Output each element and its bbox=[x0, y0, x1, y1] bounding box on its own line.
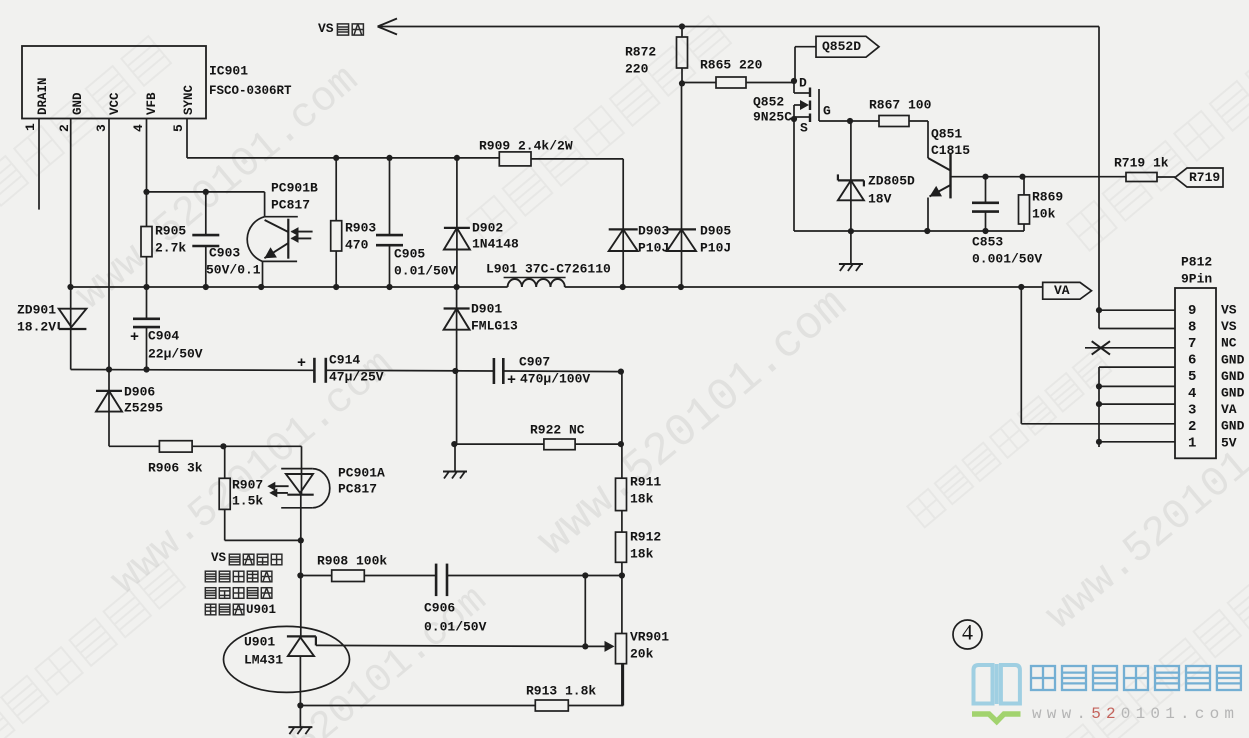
resistor R912 bbox=[616, 532, 627, 562]
svg-text:9Pin: 9Pin bbox=[1181, 271, 1212, 286]
resistor R719 bbox=[1126, 173, 1157, 182]
capacitor C914 bbox=[313, 358, 316, 383]
node C903 top bbox=[203, 189, 209, 195]
svg-text:9N25C: 9N25C bbox=[753, 109, 792, 124]
wire R912 to VR901 bbox=[621, 576, 623, 634]
wire pin5 GND bbox=[1096, 383, 1102, 389]
node R906 R907 bbox=[220, 443, 226, 449]
svg-text:SYNC: SYNC bbox=[182, 84, 196, 115]
svg-text:C1815: C1815 bbox=[931, 143, 970, 158]
svg-text:ZD901: ZD901 bbox=[17, 302, 56, 317]
svg-text:GND: GND bbox=[1221, 386, 1245, 401]
svg-text:Q851: Q851 bbox=[931, 126, 962, 141]
svg-text:8: 8 bbox=[1188, 319, 1196, 335]
svg-text:1: 1 bbox=[1188, 436, 1196, 452]
node LED cathode R907 bbox=[298, 537, 304, 543]
svg-text:R719 1k: R719 1k bbox=[1114, 155, 1169, 170]
wire main VA bus with inductor L901 bbox=[71, 279, 1043, 287]
node bus PC901B emitter bbox=[258, 284, 264, 290]
svg-text:.: . bbox=[1076, 705, 1086, 723]
wire VFB feedback bbox=[146, 119, 148, 227]
svg-text:1: 1 bbox=[23, 123, 38, 131]
node rail emitter bbox=[924, 228, 930, 234]
svg-text:U901: U901 bbox=[246, 603, 276, 617]
svg-text:2: 2 bbox=[1188, 419, 1196, 435]
svg-text:0.01/50V: 0.01/50V bbox=[424, 619, 487, 634]
logo chinese text bbox=[1031, 666, 1055, 690]
svg-text:FMLG13: FMLG13 bbox=[471, 318, 518, 333]
svg-text:4: 4 bbox=[131, 124, 146, 132]
flag VA bbox=[1043, 282, 1092, 299]
node R922 left bbox=[451, 441, 457, 447]
node C905 top bbox=[386, 155, 392, 161]
resistor R922 bbox=[454, 443, 544, 445]
svg-text:c: c bbox=[1195, 705, 1205, 723]
svg-text:R719: R719 bbox=[1189, 170, 1220, 185]
resistor R907 bbox=[224, 446, 226, 478]
svg-text:R922 NC: R922 NC bbox=[530, 422, 585, 437]
svg-text:L901 37C-C726110: L901 37C-C726110 bbox=[486, 261, 611, 276]
capacitor C907 bbox=[493, 358, 496, 384]
svg-text:0.01/50V: 0.01/50V bbox=[394, 263, 457, 278]
node low C904 bbox=[143, 366, 149, 372]
svg-text:R908 100k: R908 100k bbox=[317, 553, 387, 568]
svg-text:C914: C914 bbox=[329, 352, 360, 367]
resistor R903 bbox=[335, 158, 337, 221]
svg-text:G: G bbox=[823, 103, 831, 118]
diode D903 bbox=[622, 229, 624, 287]
annotation chinese text block bbox=[205, 551, 282, 617]
svg-text:6: 6 bbox=[1188, 353, 1196, 369]
svg-text:VS: VS bbox=[1221, 303, 1237, 318]
wire pin4 GND bbox=[1096, 401, 1102, 407]
wire SYNC bbox=[186, 119, 188, 158]
wire LED cathode to U901 bbox=[300, 540, 302, 636]
zener diode ZD901 18.2V bbox=[59, 287, 87, 370]
svg-text:VA: VA bbox=[1221, 402, 1237, 417]
svg-text:VFB: VFB bbox=[145, 92, 159, 115]
svg-text:Q852: Q852 bbox=[753, 94, 784, 109]
svg-text:220: 220 bbox=[625, 61, 649, 76]
svg-text:4: 4 bbox=[962, 619, 973, 644]
svg-text:VA: VA bbox=[1054, 283, 1070, 298]
svg-text:22μ/50V: 22μ/50V bbox=[148, 346, 203, 361]
svg-text:1: 1 bbox=[1136, 705, 1146, 723]
svg-text:VS: VS bbox=[1221, 319, 1237, 334]
svg-text:VR901: VR901 bbox=[630, 629, 669, 644]
svg-text:+: + bbox=[130, 329, 139, 346]
flag R719 bbox=[1175, 168, 1223, 187]
svg-text:D905: D905 bbox=[700, 223, 731, 238]
svg-text:10k: 10k bbox=[1032, 206, 1056, 221]
svg-text:ZD805D: ZD805D bbox=[868, 173, 915, 188]
zener diode ZD805D bbox=[850, 121, 852, 231]
wire D901 column bbox=[456, 330, 458, 444]
wire wiper arrow bbox=[585, 645, 607, 647]
svg-text:R912: R912 bbox=[630, 529, 661, 544]
svg-text:3: 3 bbox=[1188, 402, 1196, 418]
resistor R909 bbox=[499, 152, 531, 166]
svg-text:m: m bbox=[1224, 705, 1234, 723]
svg-text:2: 2 bbox=[1106, 705, 1116, 723]
node R872 bottom / R865 bbox=[679, 80, 685, 86]
node rail C853 bbox=[982, 228, 988, 234]
wire pin9 VS bbox=[1099, 309, 1175, 311]
ground below U901 bbox=[299, 706, 301, 728]
svg-text:R905: R905 bbox=[155, 223, 186, 238]
node R903 top bbox=[333, 155, 339, 161]
wire pin2row VA bbox=[1020, 287, 1022, 424]
resistor R865 bbox=[682, 82, 716, 84]
svg-text:R907: R907 bbox=[232, 477, 263, 492]
svg-text:U901: U901 bbox=[244, 634, 275, 649]
svg-text:D902: D902 bbox=[472, 220, 503, 235]
svg-text:C904: C904 bbox=[148, 328, 179, 343]
node on VS line at R872 bbox=[679, 23, 685, 29]
svg-text:7: 7 bbox=[1188, 336, 1196, 352]
svg-text:LM431: LM431 bbox=[244, 652, 283, 667]
transistor Q1 Q851 C1815 bbox=[928, 121, 951, 231]
svg-text:IC901: IC901 bbox=[209, 63, 248, 78]
svg-text:D906: D906 bbox=[124, 384, 155, 399]
wire rail bbox=[794, 230, 1024, 232]
svg-text:GND: GND bbox=[1221, 352, 1245, 367]
svg-text:5: 5 bbox=[171, 124, 186, 132]
svg-text:5: 5 bbox=[1188, 369, 1196, 385]
svg-text:w: w bbox=[1032, 705, 1042, 723]
svg-text:50V/0.1: 50V/0.1 bbox=[206, 262, 261, 277]
svg-text:.: . bbox=[1180, 705, 1190, 723]
node bus GND-pin2 bbox=[67, 284, 73, 290]
wire pin7 NC with X bbox=[1085, 347, 1175, 349]
node bus D905 bbox=[678, 284, 684, 290]
svg-text:R911: R911 bbox=[630, 474, 661, 489]
node bus C903 bbox=[203, 284, 209, 290]
resistor R867 bbox=[850, 120, 879, 122]
node bus C905 bbox=[386, 284, 392, 290]
node C853 top bbox=[982, 174, 988, 180]
flag Q852D bbox=[816, 36, 879, 57]
svg-text:GND: GND bbox=[71, 92, 85, 115]
node G bbox=[847, 118, 853, 124]
svg-text:20k: 20k bbox=[630, 646, 654, 661]
logo url text bbox=[1032, 705, 1234, 723]
svg-text:4: 4 bbox=[1188, 386, 1196, 402]
node D902 top bbox=[454, 155, 460, 161]
svg-text:VS: VS bbox=[211, 551, 227, 565]
svg-text:P10J: P10J bbox=[700, 240, 731, 255]
node bus R905 bbox=[143, 284, 149, 290]
IC U1 IC901 FSCO-0306RT box and pins bbox=[22, 46, 206, 210]
ground below C907 line bbox=[454, 444, 456, 471]
svg-text:R865 220: R865 220 bbox=[700, 57, 763, 72]
svg-text:FSCO-0306RT: FSCO-0306RT bbox=[209, 84, 292, 98]
svg-text:R869: R869 bbox=[1032, 189, 1063, 204]
svg-text:470μ/100V: 470μ/100V bbox=[520, 371, 590, 386]
diode D902 bbox=[456, 158, 458, 287]
node bus VA tap bbox=[1018, 284, 1024, 290]
svg-text:PC901B: PC901B bbox=[271, 180, 318, 195]
wire pin8 VS bbox=[1098, 310, 1100, 328]
svg-text:0: 0 bbox=[1121, 705, 1131, 723]
svg-text:D901: D901 bbox=[471, 301, 502, 316]
svg-text:www.520101.com: www.520101.com bbox=[1037, 376, 1249, 640]
svg-text:D903: D903 bbox=[638, 223, 669, 238]
svg-text:5: 5 bbox=[1091, 705, 1101, 723]
svg-text:18V: 18V bbox=[868, 191, 892, 206]
capacitor C906 bbox=[435, 564, 438, 597]
node ref VR901 bbox=[582, 643, 588, 649]
capacitor C905 bbox=[389, 158, 391, 235]
node R908 tap bbox=[297, 572, 303, 578]
svg-text:o: o bbox=[1210, 705, 1220, 723]
wire col R922 to R911 bbox=[621, 372, 623, 479]
shunt regulator U901 LM431 bbox=[224, 626, 350, 705]
svg-text:+: + bbox=[297, 355, 306, 372]
svg-text:0: 0 bbox=[1150, 705, 1160, 723]
optocoupler PC901A LED bbox=[267, 446, 329, 540]
connector P812 box bbox=[1175, 288, 1216, 458]
svg-text:GND: GND bbox=[1221, 369, 1245, 384]
svg-text:PC817: PC817 bbox=[271, 197, 310, 212]
svg-text:C853: C853 bbox=[972, 234, 1003, 249]
node R922 right bbox=[618, 441, 624, 447]
svg-text:w: w bbox=[1047, 705, 1057, 723]
resistor R913 bbox=[535, 700, 568, 711]
node low main col bbox=[618, 369, 624, 375]
ground below ZD805D bbox=[850, 231, 852, 264]
svg-text:R913 1.8k: R913 1.8k bbox=[526, 683, 596, 698]
svg-text:47μ/25V: 47μ/25V bbox=[329, 369, 384, 384]
capacitor C903 bbox=[205, 192, 207, 235]
node low D901 bbox=[452, 368, 458, 374]
optocoupler PC901B phototransistor bbox=[247, 192, 312, 287]
transistor Q2 Q852 MOSFET 9N25C bbox=[791, 78, 850, 122]
svg-text:R903: R903 bbox=[345, 220, 376, 235]
svg-text:0.001/50V: 0.001/50V bbox=[972, 251, 1042, 266]
wire U901 ref bbox=[316, 645, 585, 646]
diode D905 bbox=[681, 83, 683, 287]
svg-text:C907: C907 bbox=[519, 354, 550, 369]
node C906 R912 bbox=[582, 572, 588, 578]
svg-text:w: w bbox=[1062, 705, 1072, 723]
svg-text:18k: 18k bbox=[630, 546, 654, 561]
svg-text:2: 2 bbox=[57, 124, 72, 132]
svg-text:1.5k: 1.5k bbox=[232, 493, 263, 508]
wire pin1row bbox=[1096, 439, 1102, 445]
node bus D903 bbox=[620, 284, 626, 290]
wire pin3 VCC down bbox=[108, 119, 110, 370]
potentiometer VR901 bbox=[616, 634, 627, 664]
node R869 top bbox=[1019, 174, 1025, 180]
diode D901 bbox=[456, 287, 458, 330]
wire Q852D to drain bbox=[795, 46, 816, 48]
svg-text:5V: 5V bbox=[1221, 435, 1237, 450]
resistor R905 bbox=[141, 227, 152, 257]
page number circle 4 bbox=[953, 620, 982, 649]
node low D906 bbox=[106, 366, 112, 372]
svg-text:P10J: P10J bbox=[638, 240, 669, 255]
svg-text:C903: C903 bbox=[209, 245, 240, 260]
svg-text:1: 1 bbox=[1165, 705, 1175, 723]
svg-text:470: 470 bbox=[345, 237, 369, 252]
svg-text:DRAIN: DRAIN bbox=[36, 77, 50, 115]
svg-text:D: D bbox=[799, 75, 807, 90]
svg-text:C905: C905 bbox=[394, 246, 425, 261]
svg-text:Z5295: Z5295 bbox=[124, 400, 163, 415]
wire S to rail bbox=[793, 119, 795, 231]
svg-text:NC: NC bbox=[1221, 336, 1237, 351]
svg-text:2.7k: 2.7k bbox=[155, 240, 186, 255]
svg-text:18.2V: 18.2V bbox=[17, 319, 56, 334]
svg-text:PC901A: PC901A bbox=[338, 465, 385, 480]
resistor R872 bbox=[681, 27, 683, 38]
resistor R908 bbox=[300, 575, 331, 577]
logo book icon bbox=[972, 664, 1021, 722]
diode D906 bbox=[108, 370, 110, 447]
node main col R912 bbox=[619, 572, 625, 578]
resistor R911 bbox=[616, 478, 627, 510]
node rail ZD805D bbox=[848, 228, 854, 234]
capacitor C853 bbox=[985, 177, 987, 203]
svg-text:R906 3k: R906 3k bbox=[148, 460, 203, 475]
svg-text:1N4148: 1N4148 bbox=[472, 236, 519, 251]
svg-text:VS: VS bbox=[318, 21, 334, 36]
node bus D902 bbox=[454, 284, 460, 290]
wire R913 line bbox=[300, 705, 535, 707]
svg-text:S: S bbox=[800, 120, 808, 135]
node bus R903 bbox=[333, 284, 339, 290]
capacitor C904 bbox=[146, 287, 148, 319]
svg-text:9: 9 bbox=[1188, 303, 1196, 319]
node U901 anode bbox=[297, 702, 303, 708]
svg-text:R867 100: R867 100 bbox=[869, 97, 932, 112]
svg-text:3: 3 bbox=[94, 124, 109, 132]
node VFB R905 bbox=[143, 189, 149, 195]
svg-text:18k: 18k bbox=[630, 491, 654, 506]
wire pin6 GND bbox=[1099, 366, 1175, 368]
wire low line bbox=[71, 369, 315, 372]
svg-text:R909 2.4k/2W: R909 2.4k/2W bbox=[479, 138, 573, 153]
svg-text:VCC: VCC bbox=[108, 92, 122, 115]
wire ref to divider bbox=[584, 576, 586, 647]
svg-text:+: + bbox=[507, 372, 516, 389]
svg-text:P812: P812 bbox=[1181, 254, 1212, 269]
wire VS feed line with left arrow bbox=[378, 19, 1099, 311]
wire pin2 GND down bbox=[70, 119, 72, 288]
svg-text:PC817: PC817 bbox=[338, 481, 377, 496]
svg-text:Q852D: Q852D bbox=[822, 39, 861, 54]
svg-text:GND: GND bbox=[1221, 419, 1245, 434]
resistor R906 bbox=[109, 445, 159, 447]
resistor R869 bbox=[1023, 177, 1025, 195]
wire Q851 base to R719 bbox=[951, 176, 1127, 178]
svg-text:C906: C906 bbox=[424, 600, 455, 615]
svg-text:R872: R872 bbox=[625, 44, 656, 59]
